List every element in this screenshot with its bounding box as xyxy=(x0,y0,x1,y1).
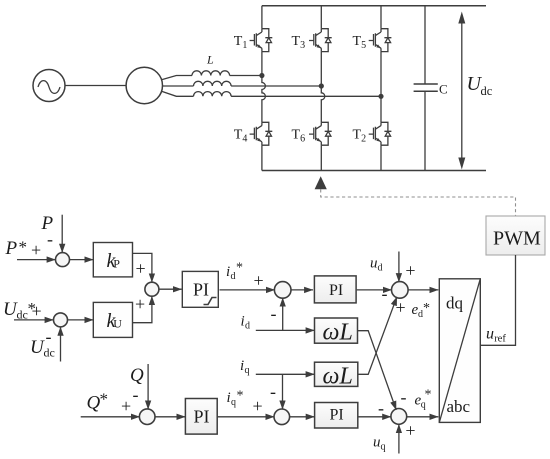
svg-text:dq: dq xyxy=(446,294,464,313)
svg-text:u: u xyxy=(486,326,494,343)
svg-text:dc: dc xyxy=(44,346,55,360)
svg-text:ωL: ωL xyxy=(323,364,353,390)
svg-text:PI: PI xyxy=(193,280,209,300)
svg-text:-: - xyxy=(271,304,277,324)
svg-text:dc: dc xyxy=(17,308,28,322)
svg-text:-: - xyxy=(270,382,276,402)
svg-text:+: + xyxy=(136,259,146,279)
svg-text:q: q xyxy=(245,365,250,376)
svg-text:+: + xyxy=(253,396,263,416)
svg-text:u: u xyxy=(373,435,381,451)
svg-text:d: d xyxy=(245,321,250,332)
svg-text:*: * xyxy=(236,261,243,276)
svg-text:+: + xyxy=(405,261,415,281)
svg-text:Q: Q xyxy=(130,365,144,386)
svg-text:*: * xyxy=(425,388,432,403)
svg-text:abc: abc xyxy=(447,397,471,416)
svg-text:dc: dc xyxy=(481,84,493,98)
svg-text:+: + xyxy=(405,421,415,441)
svg-text:-: - xyxy=(133,385,139,405)
svg-text:+: + xyxy=(31,240,41,260)
svg-text:*: * xyxy=(237,389,244,404)
svg-text:Q: Q xyxy=(87,393,101,414)
svg-text:ref: ref xyxy=(494,334,506,345)
svg-text:*: * xyxy=(100,390,109,409)
svg-text:q: q xyxy=(231,397,236,408)
svg-text:+: + xyxy=(135,294,145,314)
svg-text:-: - xyxy=(47,229,53,249)
svg-text:+: + xyxy=(32,301,42,321)
svg-text:T6: T6 xyxy=(292,128,306,145)
svg-text:T2: T2 xyxy=(353,128,367,145)
svg-text:PI: PI xyxy=(329,282,343,299)
svg-text:d: d xyxy=(378,263,383,274)
svg-text:+: + xyxy=(121,396,131,416)
svg-text:+: + xyxy=(396,298,406,318)
svg-text:C: C xyxy=(439,82,448,97)
svg-text:+: + xyxy=(254,271,264,291)
svg-text:ωL: ωL xyxy=(323,320,353,346)
svg-text:L: L xyxy=(206,53,214,67)
svg-text:T5: T5 xyxy=(353,34,367,51)
svg-text:-: - xyxy=(46,327,52,347)
svg-text:-: - xyxy=(401,387,407,407)
svg-text:P: P xyxy=(5,238,18,259)
svg-text:T3: T3 xyxy=(292,34,306,51)
svg-text:-: - xyxy=(378,398,384,418)
svg-text:PI: PI xyxy=(330,407,344,424)
svg-text:-: - xyxy=(382,284,388,304)
svg-text:T1: T1 xyxy=(234,34,248,51)
svg-text:*: * xyxy=(423,301,430,316)
svg-text:u: u xyxy=(370,256,378,272)
svg-text:P: P xyxy=(113,257,120,271)
svg-text:PWM: PWM xyxy=(493,228,541,250)
svg-text:U: U xyxy=(113,317,122,331)
svg-text:q: q xyxy=(381,442,386,453)
svg-text:d: d xyxy=(231,271,236,282)
svg-text:PI: PI xyxy=(194,407,210,427)
svg-text:*: * xyxy=(19,238,28,257)
svg-text:T4: T4 xyxy=(234,128,248,145)
